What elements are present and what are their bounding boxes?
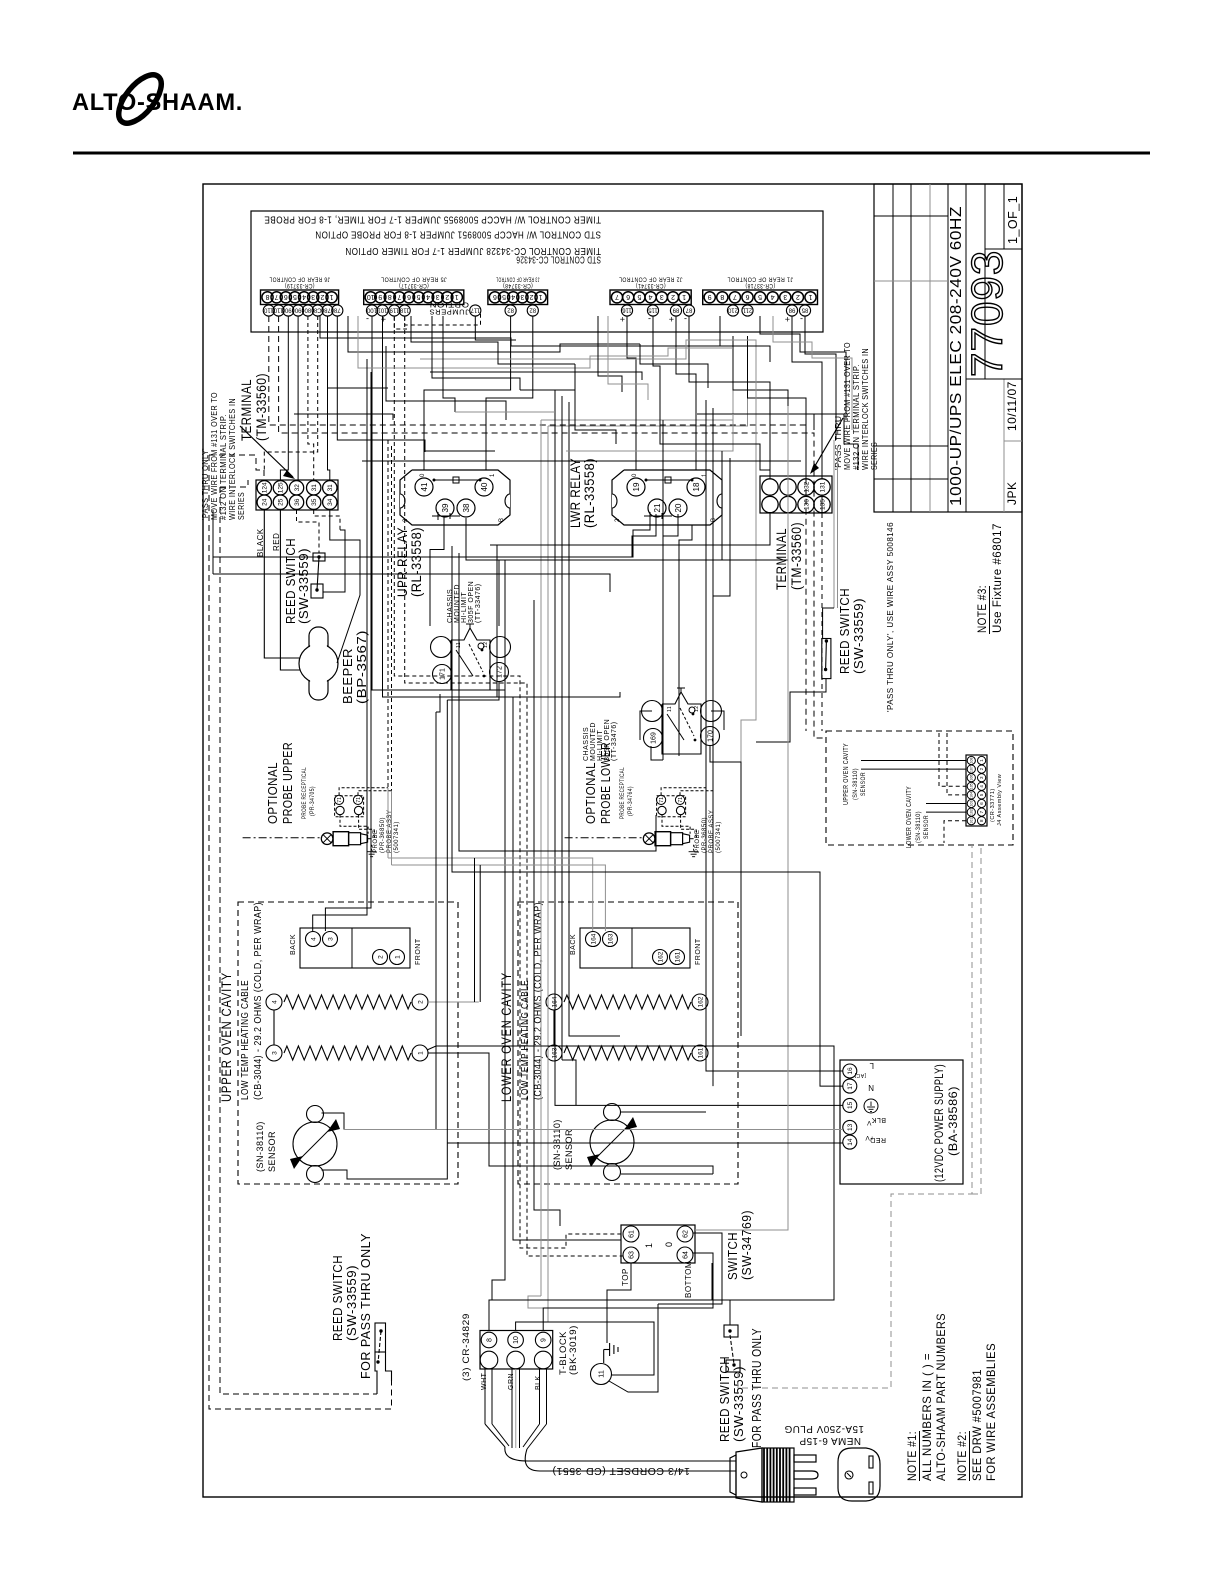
svg-text:J6 REAR OF CONTROL: J6 REAR OF CONTROL	[269, 276, 330, 283]
svg-text:BEEPER: BEEPER	[340, 648, 355, 704]
svg-text:(3) CR-34829: (3) CR-34829	[461, 1313, 471, 1381]
wire	[712, 1263, 730, 1325]
wire	[548, 336, 748, 426]
svg-text:3: 3	[327, 937, 334, 941]
wire	[733, 336, 788, 479]
J5 connector	[364, 290, 464, 305]
J6 connector	[261, 290, 339, 305]
wire	[313, 359, 367, 931]
J2 wire numbers	[621, 305, 632, 316]
svg-text:LWR RELAY: LWR RELAY	[568, 458, 583, 528]
svg-text:18: 18	[692, 482, 701, 491]
svg-text:OPTIONAL: OPTIONAL	[584, 762, 598, 824]
svg-text:82: 82	[529, 306, 536, 312]
wire	[640, 344, 708, 388]
svg-text:B: B	[711, 517, 717, 522]
wire	[497, 513, 788, 560]
J2 connector	[610, 290, 691, 305]
plug face	[838, 1448, 880, 1501]
svg-text:9: 9	[708, 293, 712, 300]
wire	[720, 316, 770, 346]
svg-text:161: 161	[697, 1047, 704, 1058]
wire	[710, 745, 741, 1036]
svg-text:CHASSIS: CHASSIS	[583, 727, 590, 761]
svg-text:1: 1	[682, 293, 686, 300]
wire	[475, 316, 516, 340]
svg-text:[AC]: [AC]	[854, 1072, 866, 1078]
svg-text:106: 106	[970, 775, 974, 781]
wire	[574, 364, 576, 390]
svg-text:4: 4	[771, 293, 775, 300]
svg-text:RED: RED	[272, 533, 281, 551]
svg-text:LOWER OVEN CAVITY: LOWER OVEN CAVITY	[904, 786, 913, 848]
wire	[540, 420, 542, 1296]
sensor wiring detail box	[826, 731, 1013, 845]
svg-text:80: 80	[304, 306, 311, 312]
wire	[328, 316, 330, 480]
svg-text:(CB-3044) - 29.2 OHMS (COLD, P: (CB-3044) - 29.2 OHMS (COLD, PER WRAP)	[533, 902, 544, 1100]
svg-text:SEE DRW #5007981: SEE DRW #5007981	[970, 1369, 984, 1481]
svg-text:MOUNTED: MOUNTED	[590, 722, 597, 761]
lower oven cavity	[518, 902, 738, 1184]
svg-text:(CB-3044) - 29.2 OHMS (COLD, P: (CB-3044) - 29.2 OHMS (COLD, PER WRAP)	[253, 902, 264, 1100]
svg-text:LOW TEMP HEATING CABLE: LOW TEMP HEATING CABLE	[240, 980, 251, 1100]
svg-text:4: 4	[302, 293, 306, 300]
svg-text:(SW-33559): (SW-33559)	[296, 548, 311, 624]
beeper BP-3567	[299, 627, 338, 700]
svg-text:SERIES: SERIES	[236, 492, 246, 520]
plug prongs	[794, 1455, 816, 1462]
wire	[294, 414, 393, 420]
svg-text:BLACK: BLACK	[256, 528, 265, 557]
svg-text:2: 2	[403, 518, 409, 522]
svg-text:1: 1	[330, 293, 334, 300]
wire	[658, 1233, 722, 1304]
svg-text:(PR-36850): (PR-36850)	[380, 817, 386, 853]
svg-text:(PR-36850): (PR-36850)	[702, 817, 708, 853]
svg-text:CHASSIS: CHASSIS	[447, 589, 454, 623]
wire	[443, 316, 455, 412]
svg-text:-: -	[648, 314, 652, 324]
control terminal box	[251, 211, 823, 332]
wire	[814, 414, 858, 470]
svg-text:11: 11	[597, 1370, 606, 1378]
wire	[555, 390, 843, 1105]
svg-text:10: 10	[513, 1336, 520, 1344]
svg-text:136: 136	[803, 499, 810, 510]
svg-text:63: 63	[629, 1251, 636, 1259]
wire	[516, 1322, 654, 1375]
svg-text:(CR-33771): (CR-33771)	[990, 788, 996, 822]
svg-text:UPR RELAY: UPR RELAY	[395, 527, 410, 597]
svg-text:8: 8	[388, 293, 392, 300]
wire	[391, 446, 393, 791]
svg-text:15A-250V PLUG: 15A-250V PLUG	[784, 1423, 864, 1434]
wire	[425, 450, 495, 452]
wire	[689, 316, 770, 479]
svg-text:(5007341): (5007341)	[394, 821, 400, 853]
wire	[212, 510, 214, 574]
svg-text:11: 11	[667, 706, 673, 712]
svg-text:85: 85	[801, 306, 808, 312]
wire	[213, 519, 650, 557]
wire	[459, 553, 656, 851]
svg-text:10/11/07: 10/11/07	[1005, 381, 1019, 431]
svg-text:25: 25	[278, 498, 285, 506]
svg-text:-: -	[684, 314, 688, 324]
wire	[706, 451, 722, 580]
wire	[632, 514, 656, 557]
svg-text:87: 87	[685, 306, 692, 312]
wire	[466, 518, 499, 626]
svg-text:STD CONTROL CC-34326: STD CONTROL CC-34326	[516, 254, 601, 266]
wire	[651, 746, 663, 760]
svg-text:2: 2	[615, 518, 621, 522]
svg-text:SENSOR: SENSOR	[267, 1131, 277, 1172]
svg-text:(SW-34769): (SW-34769)	[740, 1210, 754, 1280]
J4 connector strip	[966, 755, 987, 826]
svg-text:8: 8	[720, 293, 724, 300]
svg-text:6: 6	[626, 293, 630, 300]
wire	[428, 1053, 713, 1174]
svg-text:110: 110	[263, 306, 273, 312]
svg-text:3: 3	[311, 293, 315, 300]
svg-text:108: 108	[970, 758, 974, 764]
svg-text:+: +	[380, 314, 386, 324]
svg-text:31: 31	[311, 484, 318, 492]
svg-text:20: 20	[674, 503, 683, 512]
svg-text:1_OF_1: 1_OF_1	[1006, 196, 1020, 244]
svg-text:12: 12	[483, 641, 489, 648]
svg-text:2: 2	[529, 293, 533, 300]
svg-text:7: 7	[275, 293, 279, 300]
svg-text:77093: 77093	[963, 250, 1012, 377]
svg-text:5: 5	[758, 293, 762, 300]
svg-text:0: 0	[632, 473, 638, 477]
wire	[320, 316, 770, 362]
svg-text:12: 12	[694, 705, 700, 712]
svg-text:7: 7	[733, 293, 737, 300]
svg-text:-: -	[800, 314, 804, 324]
svg-text:J3 REAR OF CONTROL: J3 REAR OF CONTROL	[496, 276, 539, 283]
svg-text:4: 4	[426, 293, 430, 300]
svg-text:(CR-33748): (CR-33748)	[503, 282, 533, 289]
wire	[447, 1142, 843, 1144]
svg-text:(CR-33719): (CR-33719)	[285, 282, 315, 289]
svg-text:107: 107	[970, 766, 974, 772]
wire	[534, 600, 560, 1226]
svg-text:C8: C8	[313, 306, 321, 312]
wire	[474, 858, 476, 1002]
svg-text:FRONT: FRONT	[415, 938, 422, 965]
svg-text:BACK: BACK	[570, 934, 577, 955]
svg-text:REED SWITCH: REED SWITCH	[837, 588, 852, 674]
wire	[621, 1111, 706, 1113]
svg-text:(BA-38586): (BA-38586)	[946, 1086, 960, 1156]
svg-text:3: 3	[660, 293, 664, 300]
J6 wire numbers	[263, 305, 274, 316]
svg-text:169: 169	[651, 732, 658, 744]
svg-text:2: 2	[796, 293, 800, 300]
svg-text:7: 7	[397, 293, 401, 300]
svg-text:B: B	[499, 517, 505, 522]
svg-text:31: 31	[327, 484, 334, 492]
wire	[640, 711, 652, 740]
svg-text:64: 64	[683, 1251, 690, 1259]
svg-text:13: 13	[847, 1123, 854, 1131]
svg-text:3: 3	[783, 293, 787, 300]
svg-text:(5007341): (5007341)	[716, 821, 722, 853]
svg-text:89: 89	[672, 306, 679, 312]
J1 wire numbers	[727, 305, 738, 316]
wire	[738, 845, 972, 1388]
wire	[314, 510, 340, 530]
wire	[411, 316, 575, 364]
UPR relay RL-33558	[400, 470, 510, 525]
J3 wire numbers	[505, 305, 516, 316]
svg-text:35: 35	[311, 498, 318, 506]
svg-text:(SN-38110): (SN-38110)	[915, 811, 922, 843]
svg-text:118: 118	[399, 306, 409, 312]
svg-text:SWITCH: SWITCH	[726, 1232, 740, 1280]
svg-text:SENSOR: SENSOR	[564, 1129, 574, 1170]
svg-text:135: 135	[819, 499, 826, 510]
wire	[386, 346, 506, 420]
svg-text:78: 78	[324, 306, 331, 312]
svg-text:124: 124	[262, 482, 269, 493]
svg-text:1: 1	[394, 955, 401, 959]
svg-text:BOTTOM: BOTTOM	[684, 1261, 693, 1298]
svg-text:+: +	[619, 314, 625, 324]
svg-text:9: 9	[541, 1338, 548, 1342]
svg-text:(PR-34764): (PR-34764)	[627, 786, 634, 816]
svg-text:82: 82	[507, 306, 514, 312]
wire	[547, 426, 549, 1296]
svg-text:1: 1	[702, 473, 708, 477]
svg-text:101: 101	[377, 306, 388, 312]
svg-text:SERIES: SERIES	[869, 442, 879, 470]
lower cavity sensor SN-38110	[590, 1120, 634, 1164]
wire	[773, 316, 852, 430]
svg-text:PROBE ASSY: PROBE ASSY	[709, 810, 715, 853]
wire	[269, 316, 806, 731]
svg-text:40: 40	[480, 482, 489, 491]
svg-text:LOWER OVEN CAVITY: LOWER OVEN CAVITY	[498, 972, 514, 1102]
svg-text:NOTE #1:: NOTE #1:	[905, 1431, 919, 1481]
svg-text:0: 0	[664, 1241, 674, 1247]
svg-text:PROBE LOWER: PROBE LOWER	[599, 742, 613, 824]
svg-text:14/3 CORDSET (CD-3551): 14/3 CORDSET (CD-3551)	[552, 1465, 690, 1476]
svg-text:17: 17	[847, 1082, 854, 1090]
svg-text:J1 REAR OF CONTROL: J1 REAR OF CONTROL	[727, 276, 793, 283]
svg-text:L: L	[869, 1061, 874, 1070]
svg-text:7: 7	[615, 293, 619, 300]
wire	[627, 316, 636, 470]
svg-text:J2 REAR OF CONTROL: J2 REAR OF CONTROL	[619, 276, 683, 283]
svg-text:HI-LIMIT: HI-LIMIT	[461, 592, 468, 623]
svg-text:T-BLOCK: T-BLOCK	[558, 1331, 568, 1375]
note arrow right	[812, 418, 843, 471]
svg-text:62: 62	[683, 1230, 690, 1238]
svg-text:21: 21	[653, 503, 662, 512]
wire	[430, 517, 444, 626]
wire	[608, 316, 648, 400]
svg-text:4: 4	[649, 293, 653, 300]
svg-text:163: 163	[607, 933, 614, 944]
J1 connector	[703, 290, 818, 305]
svg-text:5: 5	[502, 293, 506, 300]
svg-text:PROBE UPPER: PROBE UPPER	[281, 742, 295, 824]
wire	[297, 510, 320, 553]
svg-text:(RL-33558): (RL-33558)	[409, 527, 424, 597]
svg-text:101: 101	[970, 818, 974, 824]
svg-text:6: 6	[745, 293, 749, 300]
wire	[387, 788, 389, 858]
svg-text:FOR PASS THRU ONLY: FOR PASS THRU ONLY	[358, 1233, 373, 1379]
wire	[427, 1046, 834, 1330]
svg-text:36: 36	[294, 498, 301, 506]
wire	[447, 682, 499, 700]
svg-text:LOW TEMP HEATING CABLE: LOW TEMP HEATING CABLE	[520, 980, 531, 1100]
svg-text:78: 78	[333, 306, 340, 312]
svg-text:3: 3	[520, 293, 524, 300]
svg-text:(12VDC POWER SUPPLY): (12VDC POWER SUPPLY)	[932, 1064, 946, 1182]
wire	[435, 712, 437, 1130]
wire	[490, 513, 770, 545]
cord wires	[484, 1368, 486, 1424]
svg-text:REED SWITCH: REED SWITCH	[330, 1255, 345, 1341]
svg-text:SENSOR: SENSOR	[860, 772, 867, 796]
svg-text:24: 24	[262, 498, 269, 506]
wire	[748, 336, 807, 479]
svg-text:162: 162	[697, 996, 704, 1007]
svg-text:UPPER OVEN CAVITY: UPPER OVEN CAVITY	[841, 743, 850, 805]
svg-text:2: 2	[417, 1000, 424, 1004]
svg-text:98: 98	[788, 306, 795, 312]
svg-text:4: 4	[511, 293, 515, 300]
wire	[569, 402, 620, 1036]
svg-text:-V: -V	[866, 1119, 874, 1126]
svg-text:6: 6	[284, 293, 288, 300]
wire	[322, 1143, 448, 1179]
wire	[337, 316, 425, 452]
wire	[322, 1113, 345, 1130]
svg-text:TOP: TOP	[621, 1268, 630, 1286]
wire	[711, 711, 724, 730]
wire	[486, 316, 533, 470]
svg-text:71: 71	[356, 797, 362, 803]
svg-text:9: 9	[378, 293, 382, 300]
svg-text:16: 16	[847, 1067, 854, 1075]
wire	[662, 420, 664, 536]
svg-text:71: 71	[678, 797, 684, 803]
svg-text:1: 1	[539, 293, 543, 300]
svg-text:(TT-33476): (TT-33476)	[475, 583, 482, 623]
svg-text:132: 132	[803, 481, 810, 492]
wire	[598, 316, 622, 392]
svg-text:PROBE: PROBE	[695, 829, 701, 853]
svg-text:5: 5	[417, 293, 421, 300]
svg-text:2: 2	[445, 293, 449, 300]
wire	[676, 316, 696, 470]
svg-text:(SN-38110): (SN-38110)	[255, 1121, 265, 1172]
svg-text:90: 90	[284, 306, 291, 312]
wire	[980, 848, 982, 1194]
T-BLOCK BK-3019	[480, 1331, 553, 1370]
wire	[405, 316, 623, 1256]
svg-text:(CR-33717): (CR-33717)	[399, 282, 429, 289]
wire	[792, 316, 822, 479]
svg-text:103: 103	[970, 801, 974, 807]
svg-text:-: -	[366, 314, 370, 324]
svg-text:J5 REAR OF CONTROL: J5 REAR OF CONTROL	[381, 276, 447, 283]
wire	[428, 1001, 479, 1003]
svg-text:32: 32	[294, 484, 301, 492]
J3 connector	[488, 290, 548, 305]
wire	[516, 1296, 548, 1322]
wire	[562, 1060, 576, 1105]
svg-text:211: 211	[742, 306, 752, 312]
wire	[497, 545, 620, 697]
svg-text:41: 41	[420, 482, 429, 491]
wire	[220, 487, 377, 1394]
svg-text:105: 105	[970, 783, 974, 789]
svg-text:J4 Assembly View: J4 Assembly View	[997, 774, 1003, 826]
wire	[561, 396, 563, 1060]
svg-text:Use Fixture #68017: Use Fixture #68017	[992, 523, 1004, 633]
wire	[348, 316, 640, 352]
wire	[358, 316, 733, 368]
svg-text:TIMER CONTROL W/ HACCP 5008955: TIMER CONTROL W/ HACCP 5008955 JUMPER 1-…	[264, 214, 601, 226]
wire	[383, 316, 622, 1240]
svg-text:(TM-33560): (TM-33560)	[789, 522, 804, 590]
svg-text:(CR-33741): (CR-33741)	[636, 282, 666, 289]
wire	[653, 316, 660, 420]
svg-text:14: 14	[847, 1138, 854, 1146]
logo swirl	[111, 68, 169, 131]
svg-text:PROBE RECEPTICAL: PROBE RECEPTICAL	[301, 767, 308, 819]
wire	[388, 858, 593, 931]
svg-text:(CR-33718): (CR-33718)	[745, 282, 775, 289]
svg-text:115: 115	[648, 306, 658, 312]
svg-text:(BK-3019): (BK-3019)	[568, 1325, 578, 1375]
svg-text:STD CONTROL W/ HACCP 5008951: STD CONTROL W/ HACCP 5008951 JUMPER 1-8 …	[315, 229, 601, 241]
svg-text:N: N	[868, 1083, 874, 1092]
svg-text:110: 110	[273, 306, 283, 312]
svg-text:ALL NUMBERS IN ( ) =: ALL NUMBERS IN ( ) =	[920, 1353, 934, 1481]
svg-text:5: 5	[293, 293, 297, 300]
svg-text:PROBE: PROBE	[373, 829, 379, 853]
svg-text:(PR-34705): (PR-34705)	[309, 786, 316, 816]
wire	[323, 530, 345, 592]
wire	[520, 389, 575, 391]
svg-text:OPTIONAL: OPTIONAL	[266, 762, 280, 824]
wire	[543, 1253, 713, 1330]
wire	[424, 316, 511, 470]
wire	[663, 514, 678, 760]
wire	[446, 700, 448, 1143]
J5 wire numbers / option jumpers	[366, 305, 377, 316]
wire	[452, 546, 843, 1086]
svg-text:NOTE #3:: NOTE #3:	[977, 585, 989, 633]
lower hi-limit TT-33476	[662, 692, 701, 754]
svg-text:305F OPEN: 305F OPEN	[468, 581, 475, 623]
svg-text:2: 2	[320, 293, 324, 300]
wire	[264, 510, 300, 658]
svg-text:210: 210	[727, 306, 738, 312]
svg-text:PROBE RECEPTICAL: PROBE RECEPTICAL	[619, 767, 626, 819]
svg-text:JUMPERS: JUMPERS	[429, 308, 469, 315]
